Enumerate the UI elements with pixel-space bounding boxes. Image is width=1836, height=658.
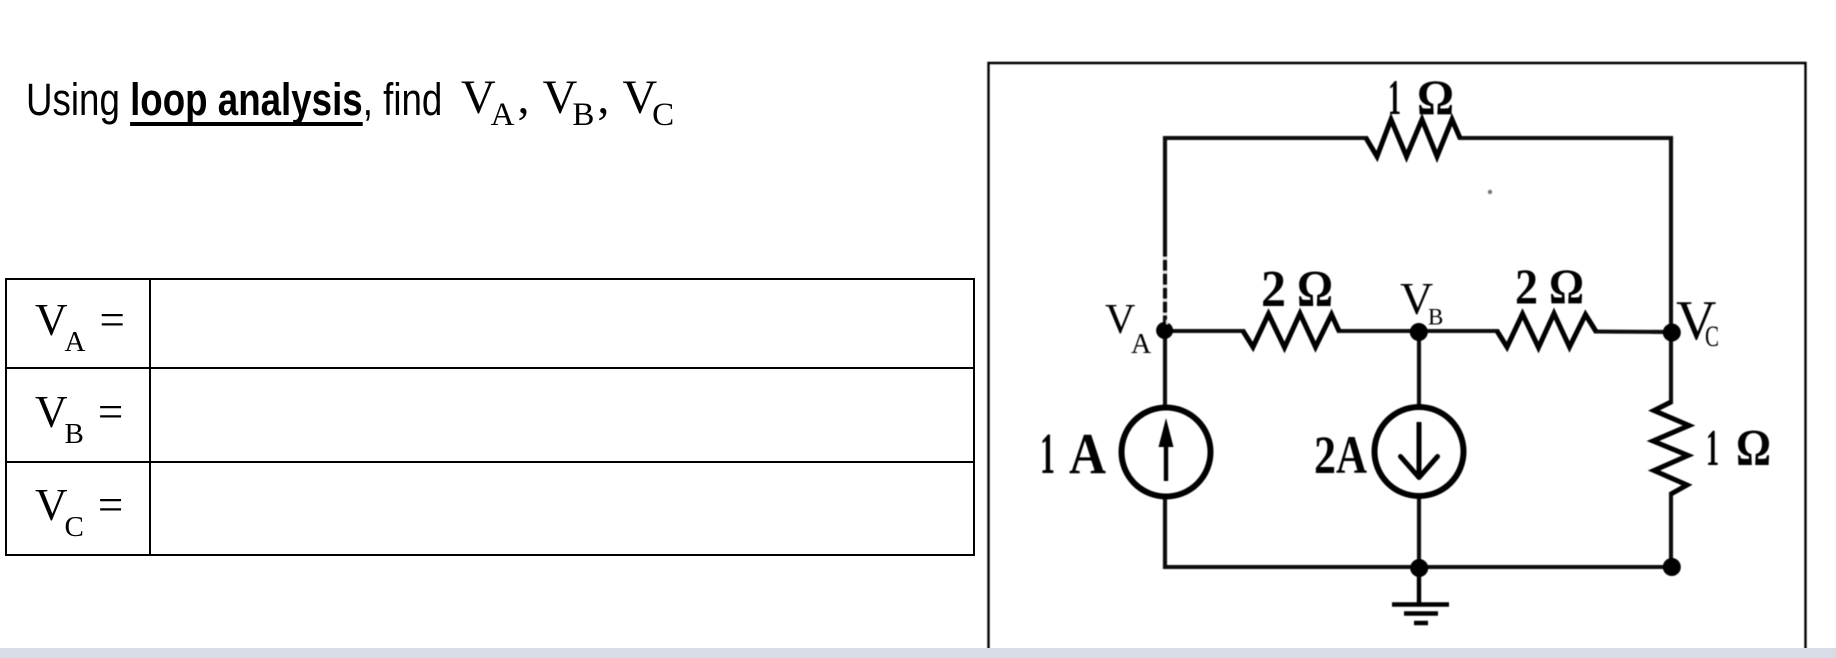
junction dot bottom right [1663,558,1681,576]
svg-text:A: A [1131,329,1152,360]
svg-text:A: A [1336,425,1367,485]
wire right vertical lower [1669,494,1673,567]
wire middle: VB to R3 [1419,329,1497,333]
node VC dot [1663,324,1681,342]
svg-text:Ω: Ω [1549,258,1584,314]
wire bottom [1165,565,1671,569]
wire top-right segment [1460,136,1671,140]
svg-text:Ω: Ω [1417,69,1454,125]
svg-text:A: A [1069,421,1106,486]
blue strip [0,648,1836,658]
wire VB down to 2A source [1417,331,1421,407]
wire right vertical upper [1669,138,1673,402]
svg-text:1: 1 [1040,421,1055,486]
wire middle: R2 to VB [1339,329,1419,333]
wire left vertical upper [1163,138,1167,408]
junction dot bottom middle [1410,559,1428,577]
wire middle: R3 to VC [1596,329,1671,334]
resistor right 2ohm [1497,314,1596,348]
heading math part [461,74,674,122]
I1 arrow (up) [1164,430,1168,481]
svg-text:C: C [1705,320,1719,353]
svg-text:2: 2 [1314,425,1336,485]
svg-text:Ω: Ω [1736,420,1771,477]
wire top-left segment [1165,136,1366,140]
answer table [5,278,975,556]
wire middle: VA to R2 [1165,329,1243,333]
svg-text:B: B [1428,305,1443,330]
heading sans part [26,77,442,122]
I2 arrow (down) [1417,422,1422,475]
wire left vertical upper (scan gaps) [1163,257,1169,324]
node VB dot [1410,323,1428,341]
svg-text:1: 1 [1388,69,1401,125]
svg-text:Ω: Ω [1297,261,1333,318]
svg-text:2: 2 [1261,261,1286,318]
resistor R top 1ohm [1366,120,1460,157]
resistor right vertical 1ohm [1653,402,1689,494]
wire left vertical lower [1163,496,1167,567]
svg-text:2: 2 [1515,258,1538,314]
node VA dot [1156,322,1173,339]
resistor left 2ohm [1243,314,1339,348]
svg-text:1: 1 [1706,420,1719,477]
current source I2 2A circle [1375,407,1464,496]
wire 2A source to bottom [1417,495,1421,567]
ground [1392,568,1449,623]
current source I1 1A circle [1122,408,1211,497]
